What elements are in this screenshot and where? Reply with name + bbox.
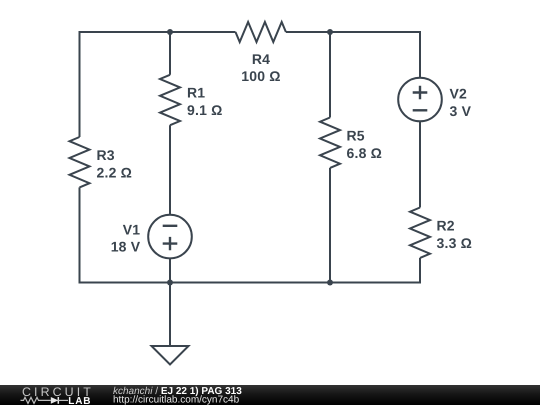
svg-text:R3: R3 bbox=[97, 147, 115, 163]
wire bottom rail bbox=[79, 282, 422, 284]
svg-text:6.8 Ω: 6.8 Ω bbox=[347, 145, 383, 161]
wire R2 to bottom rail bbox=[419, 258, 421, 284]
svg-text:R1: R1 bbox=[187, 85, 205, 101]
CircuitLab logo resistor zigzag bbox=[21, 397, 51, 403]
resistor R3 bbox=[70, 137, 90, 187]
wire left rail lower bbox=[79, 187, 81, 283]
svg-text:100 Ω: 100 Ω bbox=[241, 68, 280, 84]
wire R5 to bottom rail bbox=[329, 168, 331, 283]
wire top right (R4 to right rail) bbox=[286, 31, 420, 33]
voltage source V2 bbox=[398, 78, 442, 122]
wire right rail upper bbox=[419, 31, 421, 78]
wire V1 to bottom rail bbox=[169, 258, 171, 282]
node junction dot at R5 bottom bbox=[327, 280, 333, 286]
node junction dot at R5 top bbox=[327, 29, 333, 35]
wire left rail upper bbox=[79, 31, 81, 137]
svg-text:2.2 Ω: 2.2 Ω bbox=[97, 165, 133, 181]
svg-text:R4: R4 bbox=[252, 51, 270, 67]
wire R5 stem bbox=[329, 32, 331, 118]
node junction dot at V1 bottom bbox=[167, 280, 173, 286]
svg-text:LAB: LAB bbox=[68, 396, 91, 405]
wire V2 to R2 bbox=[419, 121, 421, 207]
footer bar bbox=[0, 385, 540, 405]
svg-text:http://circuitlab.com/cyn7c4b: http://circuitlab.com/cyn7c4b bbox=[113, 395, 240, 405]
resistor R1 bbox=[160, 75, 180, 125]
resistor R4 bbox=[236, 22, 286, 42]
CircuitLab logo diode bbox=[51, 397, 68, 404]
wire top left (node A to R4) bbox=[80, 31, 236, 33]
svg-text:V1: V1 bbox=[123, 222, 141, 238]
svg-text:R2: R2 bbox=[437, 217, 455, 233]
ground bbox=[152, 283, 189, 365]
svg-text:V2: V2 bbox=[450, 85, 468, 101]
svg-text:9.1 Ω: 9.1 Ω bbox=[187, 102, 223, 118]
wire R1 stem bbox=[169, 32, 171, 75]
svg-text:18 V: 18 V bbox=[111, 239, 141, 255]
resistor R2 bbox=[410, 208, 430, 258]
resistor R5 bbox=[320, 118, 340, 168]
node junction dot at R1 top bbox=[167, 29, 173, 35]
svg-text:3 V: 3 V bbox=[450, 103, 472, 119]
voltage source V1 bbox=[148, 215, 192, 259]
svg-text:3.3 Ω: 3.3 Ω bbox=[437, 235, 473, 251]
wire R1 to V1 bbox=[169, 125, 171, 215]
svg-text:R5: R5 bbox=[347, 127, 365, 143]
